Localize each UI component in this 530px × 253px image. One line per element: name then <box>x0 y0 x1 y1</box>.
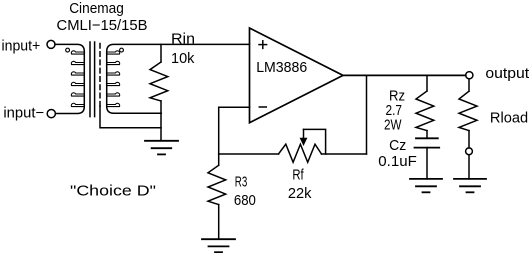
op-amp U1 - pin mark <box>259 106 266 108</box>
ground (Rload) <box>454 179 486 192</box>
ground (Cz) <box>410 179 442 192</box>
resistor Rin <box>150 44 168 140</box>
svg-text:CMLI−15/15B: CMLI−15/15B <box>57 17 148 34</box>
transformer T1 secondary phase dot <box>120 48 124 52</box>
node output terminal <box>466 72 473 79</box>
node input+ terminal <box>47 40 55 48</box>
wire shield to ground <box>100 106 161 128</box>
wire inverting input to feedback node <box>219 107 279 154</box>
transformer T1 primary phase dot <box>66 48 70 52</box>
svg-text:Cz: Cz <box>389 137 406 154</box>
svg-text:input−: input− <box>3 105 44 122</box>
transformer T1 electrostatic shield (dashed) <box>99 44 101 107</box>
node Rload bottom terminal <box>466 148 473 155</box>
transformer T1 secondary winding <box>107 44 250 113</box>
transformer T1 primary winding <box>55 44 84 113</box>
node input- terminal <box>47 110 55 118</box>
wire Rload terminal to ground <box>468 155 470 179</box>
svg-text:"Choice D": "Choice D" <box>70 183 156 200</box>
wire wiper loop to right terminal <box>304 129 326 154</box>
wire feedback from output <box>366 75 368 154</box>
svg-text:Rin: Rin <box>171 30 195 47</box>
svg-text:680: 680 <box>234 192 256 209</box>
resistor Rz <box>416 75 434 130</box>
ground (transformer/Rin) <box>145 141 178 155</box>
resistor R3 <box>208 154 226 239</box>
svg-text:LM3886: LM3886 <box>256 59 307 76</box>
svg-text:Cinemag: Cinemag <box>69 0 124 17</box>
ground (R3) <box>202 239 235 252</box>
svg-text:22k: 22k <box>288 185 312 202</box>
resistor Rload <box>459 79 477 148</box>
svg-text:input+: input+ <box>2 37 41 54</box>
capacitor Cz <box>415 131 440 179</box>
svg-text:Rload: Rload <box>490 110 528 127</box>
potentiometer Rf body <box>279 144 322 162</box>
svg-text:0.1uF: 0.1uF <box>378 153 417 170</box>
svg-text:10k: 10k <box>171 50 195 67</box>
potentiometer Rf wiper arrow <box>300 129 308 146</box>
svg-text:output: output <box>485 65 530 82</box>
transformer T1 core <box>90 42 95 117</box>
wire Rf right terminal to feedback column <box>322 153 367 155</box>
svg-text:2W: 2W <box>384 116 402 133</box>
op-amp U1 LM3886 <box>250 28 344 123</box>
op-amp U1 + pin mark <box>259 41 267 49</box>
svg-text:Rf: Rf <box>292 166 304 183</box>
wire op-amp output rail <box>343 74 466 76</box>
svg-text:R3: R3 <box>235 173 248 190</box>
